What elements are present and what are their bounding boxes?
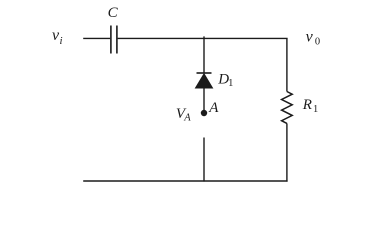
svg-text:1: 1 [313,104,318,115]
label A [208,100,219,116]
label v_0 [306,28,321,47]
wire right branch lower lead [286,123,288,181]
wire top from capacitor to top-right corner [118,37,288,39]
svg-text:1: 1 [228,78,233,89]
wire input lead left of capacitor [83,37,110,39]
svg-text:0: 0 [315,36,320,47]
svg-text:R: R [302,97,312,113]
resistor R1 [282,92,293,124]
wire from diode anode down to node A [203,88,205,111]
svg-text:A: A [183,113,191,124]
wire right branch upper lead [286,38,288,91]
label V_A [176,106,191,124]
label v_i [52,27,63,47]
wire lower middle segment to bottom wire [203,138,205,182]
node A junction dot [201,110,207,116]
diode D1 [196,73,213,88]
label D_1 [217,71,233,89]
wire middle branch from top wire down to diode cathode [203,36,205,73]
svg-text:i: i [60,35,63,47]
label R_1 [302,97,319,115]
capacitor C [111,26,117,54]
svg-text:A: A [208,100,219,116]
svg-text:v: v [306,28,314,45]
wire bottom rail [83,180,287,182]
svg-text:C: C [108,5,119,21]
label C [108,5,119,21]
